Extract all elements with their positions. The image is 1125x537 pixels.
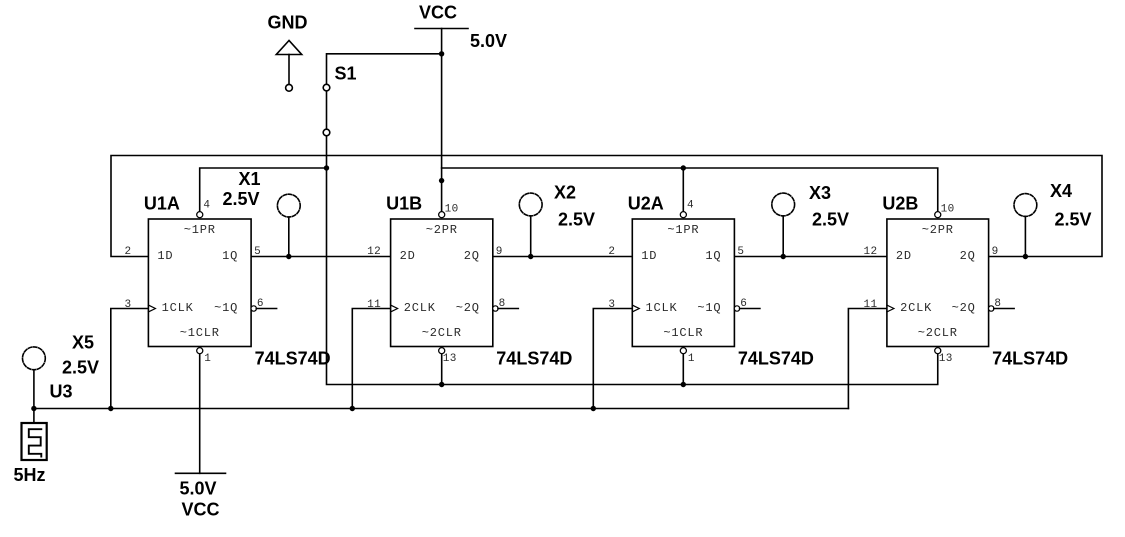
flip-flop U2B box	[887, 219, 989, 347]
probe X5	[23, 347, 46, 370]
probe X1	[277, 194, 300, 217]
svg-text:X2: X2	[554, 183, 576, 203]
U1A inverted Q stub wire	[256, 308, 276, 310]
svg-text:VCC: VCC	[419, 3, 457, 23]
svg-text:1D: 1D	[157, 249, 173, 263]
svg-text:2.5V: 2.5V	[223, 189, 260, 209]
wire U1B 2Q to U2A 1D	[493, 256, 633, 258]
svg-text:13: 13	[939, 353, 953, 365]
svg-text:4: 4	[687, 199, 694, 211]
U1B inverted Q bubble pin 8	[493, 306, 498, 311]
junction X2	[528, 254, 533, 259]
junction X3	[781, 254, 786, 259]
svg-text:6: 6	[257, 298, 264, 310]
U2A preset bubble pin 4	[680, 212, 686, 218]
U2B inverted Q stub wire	[994, 308, 1014, 310]
U2A clear bubble pin 1	[680, 348, 686, 354]
probe X2	[519, 193, 542, 216]
svg-text:2CLK: 2CLK	[900, 301, 932, 315]
svg-text:5: 5	[737, 246, 744, 258]
U1B clock triangle	[391, 305, 398, 312]
U2B clock triangle	[887, 305, 894, 312]
svg-text:~1Q: ~1Q	[697, 301, 721, 315]
svg-text:9: 9	[992, 246, 999, 258]
U1A preset bubble pin 4	[197, 212, 203, 218]
svg-text:2CLK: 2CLK	[404, 301, 436, 315]
svg-text:~2PR: ~2PR	[426, 223, 458, 237]
svg-text:GND: GND	[268, 13, 308, 33]
svg-text:3: 3	[124, 299, 131, 311]
U2A inverted Q stub wire	[740, 308, 760, 310]
svg-text:8: 8	[994, 298, 1001, 310]
svg-text:74LS74D: 74LS74D	[255, 349, 331, 369]
wire U1B pin13 to clear line	[441, 353, 443, 385]
svg-text:U2B: U2B	[882, 194, 918, 214]
svg-text:2: 2	[608, 246, 615, 258]
probe X4	[1014, 194, 1037, 217]
svg-text:X3: X3	[809, 183, 831, 203]
wire U1A 1Q to U1B 2D	[251, 256, 391, 258]
U2B inverted Q bubble pin 8	[989, 306, 994, 311]
svg-text:~1CLR: ~1CLR	[180, 326, 220, 340]
svg-text:5Hz: 5Hz	[14, 465, 46, 485]
flip-flop U1B box	[391, 219, 493, 347]
junction X1	[286, 254, 291, 259]
svg-text:2Q: 2Q	[464, 249, 480, 263]
wire clock bus	[34, 408, 849, 410]
svg-text:11: 11	[367, 299, 381, 311]
svg-text:8: 8	[499, 298, 506, 310]
junction preset/S1	[324, 165, 329, 170]
svg-text:1: 1	[688, 353, 695, 365]
svg-text:11: 11	[863, 299, 877, 311]
wire X1 to Q line	[288, 217, 290, 257]
svg-text:2.5V: 2.5V	[1055, 210, 1092, 230]
VCC power bar bottom	[176, 472, 226, 474]
wire VCC line to U2A/U2B preset pins	[442, 168, 938, 212]
svg-text:5.0V: 5.0V	[470, 31, 507, 51]
junction preset/U2A pin4	[681, 165, 686, 170]
svg-text:1: 1	[204, 353, 211, 365]
svg-text:1Q: 1Q	[705, 249, 721, 263]
wire U2A pin1 to clear line	[682, 353, 684, 385]
wire X3 to Q line	[782, 216, 784, 257]
svg-text:4: 4	[203, 199, 210, 211]
svg-text:2D: 2D	[400, 249, 416, 263]
svg-text:5: 5	[254, 246, 261, 258]
junction X4	[1023, 254, 1028, 259]
svg-text:74LS74D: 74LS74D	[496, 349, 572, 369]
svg-text:X4: X4	[1050, 181, 1072, 201]
svg-text:74LS74D: 74LS74D	[992, 349, 1068, 369]
svg-text:~1PR: ~1PR	[667, 223, 699, 237]
probe X3	[772, 193, 795, 216]
U1A inverted Q bubble pin 6	[251, 306, 256, 311]
svg-text:1CLK: 1CLK	[646, 301, 678, 315]
svg-text:74LS74D: 74LS74D	[738, 349, 814, 369]
svg-text:U1A: U1A	[144, 194, 180, 214]
wire U1A pin4 to S1 line	[200, 168, 327, 212]
switch S1	[323, 84, 330, 136]
flip-flop U2A box	[632, 219, 734, 347]
wire clock to U2A 1CLK	[593, 309, 632, 409]
wire feedback bus from U2B output to U1A input	[111, 156, 1102, 257]
svg-text:U1B: U1B	[386, 194, 422, 214]
clock source U3	[22, 423, 47, 460]
wire clock to U2B 2CLK	[848, 309, 887, 409]
wire U1A pin1 to VCC bar	[199, 353, 201, 474]
wire VCC down to U1B pin 10	[441, 29, 443, 213]
ground	[276, 41, 301, 92]
U2A inverted Q bubble pin 6	[734, 306, 739, 311]
svg-text:1Q: 1Q	[222, 249, 238, 263]
U2B clear bubble pin 13	[935, 348, 941, 354]
svg-text:6: 6	[740, 298, 747, 310]
svg-text:2D: 2D	[896, 249, 912, 263]
svg-text:~2CLR: ~2CLR	[422, 326, 462, 340]
svg-text:2.5V: 2.5V	[62, 358, 99, 378]
svg-text:~1PR: ~1PR	[184, 223, 216, 237]
wire clock to U1A 1CLK	[111, 309, 149, 409]
flip-flop U1A box	[148, 219, 251, 347]
wire X2 to Q line	[530, 216, 532, 257]
svg-text:13: 13	[443, 353, 457, 365]
junction S1/VCC	[439, 51, 444, 56]
VCC power symbol	[415, 28, 468, 30]
svg-text:12: 12	[367, 246, 381, 258]
wire X4 to Q line	[1024, 216, 1026, 256]
svg-text:S1: S1	[335, 64, 357, 84]
svg-text:2Q: 2Q	[960, 249, 976, 263]
U2A clock triangle	[632, 305, 639, 312]
svg-text:~2Q: ~2Q	[456, 301, 480, 315]
svg-text:U2A: U2A	[628, 194, 664, 214]
svg-text:2: 2	[124, 246, 131, 258]
svg-text:2.5V: 2.5V	[812, 210, 849, 230]
U1B clear bubble pin 13	[439, 348, 445, 354]
svg-text:1D: 1D	[641, 249, 657, 263]
U1A clear bubble pin 1	[197, 348, 203, 354]
wire S1 top to VCC	[327, 54, 442, 84]
wire U2A 1Q to U2B 2D	[734, 256, 887, 258]
svg-text:1CLK: 1CLK	[162, 301, 194, 315]
svg-text:~1Q: ~1Q	[214, 301, 238, 315]
svg-text:12: 12	[863, 246, 877, 258]
svg-text:VCC: VCC	[182, 500, 220, 520]
svg-text:~1CLR: ~1CLR	[663, 326, 703, 340]
wire X5 to clock bus	[33, 370, 35, 409]
svg-text:10: 10	[941, 203, 955, 215]
svg-text:~2PR: ~2PR	[922, 223, 954, 237]
junction on VCC wire	[439, 178, 444, 183]
U1B inverted Q stub wire	[498, 308, 518, 310]
svg-text:3: 3	[608, 299, 615, 311]
U1A clock triangle	[148, 305, 155, 312]
svg-text:~2CLR: ~2CLR	[918, 326, 958, 340]
svg-text:10: 10	[445, 203, 459, 215]
svg-text:~2Q: ~2Q	[952, 301, 976, 315]
svg-text:9: 9	[496, 246, 503, 258]
wire S1 bottom to clear line	[327, 136, 938, 384]
wire U2A pin4 drop	[682, 168, 684, 212]
wire U3 to clock bus	[33, 409, 35, 424]
U2B preset bubble pin 10	[935, 212, 941, 218]
svg-text:X1: X1	[239, 169, 261, 189]
svg-text:X5: X5	[72, 333, 94, 353]
U1B preset bubble pin 10	[439, 212, 445, 218]
svg-text:2.5V: 2.5V	[558, 210, 595, 230]
svg-text:5.0V: 5.0V	[180, 479, 217, 499]
svg-text:U3: U3	[50, 382, 73, 402]
wire clock to U1B 2CLK	[352, 309, 390, 409]
